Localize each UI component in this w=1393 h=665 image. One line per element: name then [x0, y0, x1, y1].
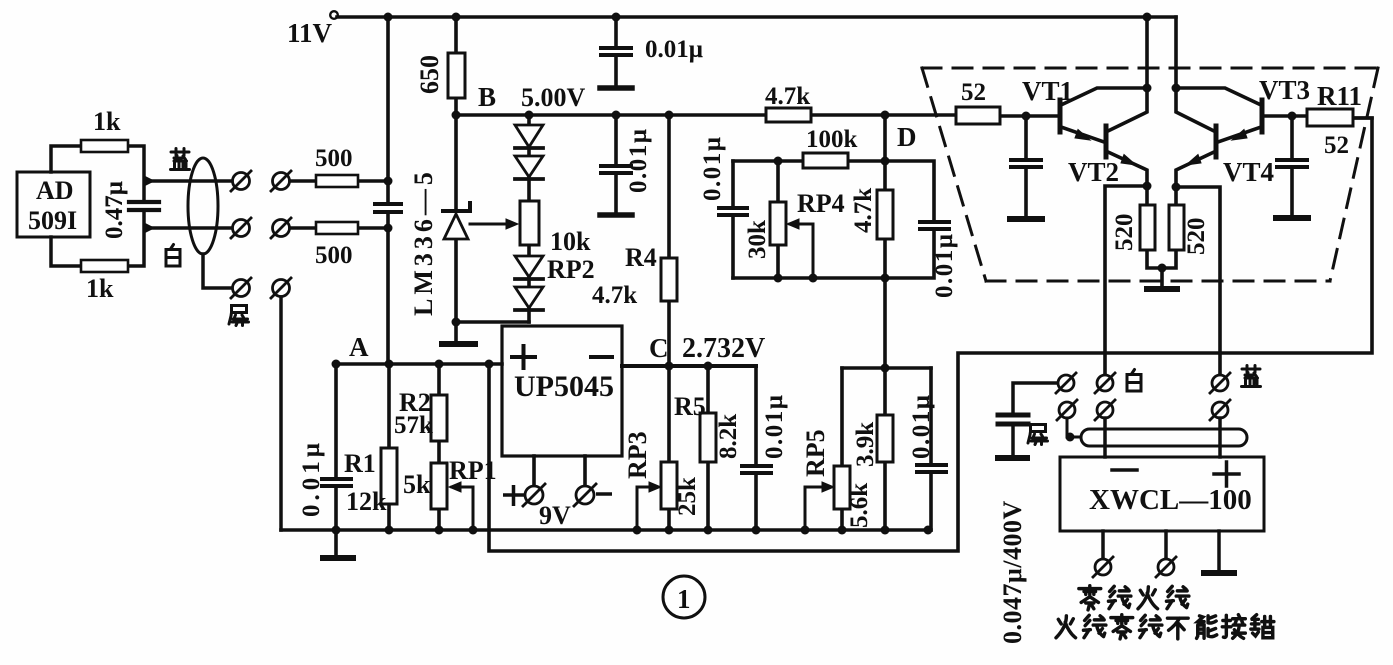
dashed module outline left [922, 68, 986, 281]
node 100k left [774, 157, 783, 166]
node left rail 500 lower [384, 224, 393, 233]
node B at diode chain [525, 111, 534, 120]
resistor R5 8.2k [700, 413, 716, 462]
resistor 52 left [956, 107, 1000, 124]
terminal mains 2 [1156, 557, 1176, 577]
terminal middle right [271, 218, 291, 238]
wire RP3 wiper [637, 487, 657, 530]
wire 0.01u right loop of RP4 [885, 161, 934, 278]
wire left 520 column [1147, 186, 1176, 268]
terminal shield left [231, 278, 251, 298]
node 520 common [1158, 264, 1167, 273]
ground 520 common [1147, 286, 1177, 292]
wire R5 column [706, 366, 710, 530]
resistor R4 4.7k [661, 258, 677, 301]
node B at 0.01u [612, 111, 621, 120]
ground below 0.01u A [323, 555, 353, 561]
terminal upper left [231, 171, 251, 191]
node 100k right [881, 157, 890, 166]
svg-text:VT3: VT3 [1259, 75, 1310, 105]
label minus battery [596, 492, 612, 496]
node rail R5 [704, 526, 713, 535]
wire diode chain bottom to LM336 ground node [456, 320, 529, 324]
svg-text:RP2: RP2 [547, 255, 595, 284]
node rail R1 [385, 526, 394, 535]
ground XWCL [1204, 570, 1234, 576]
wire 3.9k column [883, 368, 887, 530]
svg-text:30k: 30k [744, 220, 771, 259]
wire diode chain column [527, 115, 531, 322]
terminal shield right [271, 278, 291, 298]
potentiometer RP5 body [834, 466, 850, 509]
wire AD509I top feedback loop [51, 146, 144, 202]
diode D1 [515, 125, 543, 148]
resistor 100k [803, 153, 848, 168]
svg-text:10k: 10k [550, 227, 591, 256]
node top rail at 0.01u [612, 13, 621, 22]
svg-text:2.732V: 2.732V [682, 333, 765, 364]
svg-text:R1: R1 [344, 449, 376, 478]
wire R4 column B to C [667, 115, 671, 366]
svg-text:4.7k: 4.7k [592, 282, 637, 309]
svg-text:0.01μ: 0.01μ [931, 233, 958, 298]
svg-text:500: 500 [315, 242, 353, 269]
resistor 1k top [81, 140, 128, 152]
wire RP1 wiper [452, 487, 473, 530]
node rail RP5 wiper [801, 526, 810, 535]
wire R1 column [387, 364, 391, 530]
diode D3 [515, 256, 543, 279]
resistor 520 right [1169, 205, 1184, 250]
heater XWCL-100 box [1060, 457, 1264, 531]
svg-text:RP5: RP5 [801, 429, 830, 477]
node VT1 VT2 collector [1143, 84, 1152, 93]
svg-text:100k: 100k [806, 126, 858, 153]
node B at 650 [452, 111, 461, 120]
svg-text:0.01μ: 0.01μ [908, 394, 935, 459]
node 520 emitter right [1172, 183, 1181, 192]
svg-text:UP5045: UP5045 [514, 370, 614, 403]
svg-text:25k: 25k [674, 477, 701, 516]
resistor R1 12k [381, 448, 397, 504]
wire 520 common ground stub [1160, 268, 1164, 287]
svg-text:0.01μ: 0.01μ [298, 439, 325, 517]
resistor 520 left [1140, 205, 1155, 250]
svg-text:VT4: VT4 [1223, 157, 1274, 187]
wire white lead into XWCL [1103, 418, 1107, 457]
capacitor at VT3 base plates [1277, 160, 1307, 167]
svg-text:0.47μ: 0.47μ [101, 181, 128, 239]
wire AD509I bottom feedback loop [51, 210, 144, 266]
terminal shield top [1056, 373, 1076, 393]
resistor 650 [448, 53, 465, 98]
node D top [881, 111, 890, 120]
svg-text:1k: 1k [86, 274, 114, 303]
annotation circled figure number 1 [663, 576, 705, 618]
label shield chinese left [229, 306, 249, 326]
dashed module outline right [1330, 68, 1378, 281]
capacitor 0.01u at C plates [742, 466, 771, 473]
terminal battery minus [574, 484, 596, 506]
terminal shield bottom [1057, 400, 1077, 420]
ground below VT1 base cap [1010, 216, 1042, 222]
wire XWCL mains lead 2 [1164, 531, 1168, 558]
node VT1 base [1022, 112, 1031, 121]
label plus inside XWCL [1214, 462, 1239, 486]
op-amp U1 AD509I box [17, 172, 90, 237]
terminal battery plus [523, 484, 545, 506]
wire white output drop [1105, 186, 1147, 374]
label blue chinese bottom [1242, 366, 1261, 387]
capacitor 0.01u below B end bar [600, 212, 632, 218]
transistor Q1 VT1 [1060, 88, 1147, 142]
svg-text:509I: 509I [28, 206, 77, 235]
capacitor 0.01u at A plates [322, 479, 351, 486]
IC U2 UP5045 box [502, 326, 622, 456]
wire ground rail bottom [281, 528, 931, 532]
svg-text:VT1: VT1 [1022, 76, 1073, 106]
svg-text:12k: 12k [346, 487, 387, 516]
svg-text:5k: 5k [403, 470, 431, 499]
wire RP4 box left with series cap [731, 161, 735, 278]
wire 30k column [776, 161, 780, 278]
svg-text:RP4: RP4 [797, 189, 845, 218]
svg-text:RP3: RP3 [623, 431, 652, 479]
svg-text:4.7k: 4.7k [765, 83, 810, 110]
dashed module outline top [922, 67, 1378, 70]
terminal mains 1 [1093, 557, 1113, 577]
node C at R5 [704, 362, 713, 371]
wire top 11V rail [337, 15, 1176, 19]
node top rail at 650 [452, 13, 461, 22]
node left rail 500 upper [384, 177, 393, 186]
svg-text:0.047μ/400V: 0.047μ/400V [998, 500, 1027, 644]
terminal blue bottom [1210, 400, 1230, 420]
node B at R4 [665, 111, 674, 120]
label minus inside XWCL [1112, 468, 1137, 472]
label shield chinese bottom [1028, 425, 1048, 445]
resistor 4.7k horizontal on B rail [766, 108, 811, 122]
resistor 1k bottom [81, 260, 128, 272]
node rail 3.9k [881, 526, 890, 535]
svg-text:3.9k: 3.9k [852, 422, 879, 467]
wire D to 52 resistor [885, 115, 1058, 116]
wire RP4 box bottom [733, 276, 885, 280]
capacitor in left rail plates [375, 204, 401, 212]
node top rail at left rail [384, 13, 393, 22]
node rail 0.01u RP5 [924, 526, 933, 535]
node rail 0.01u A [332, 526, 341, 535]
svg-text:0.01μ: 0.01μ [761, 394, 788, 459]
capacitor at VT1 base plates [1011, 160, 1041, 167]
node A left [332, 360, 341, 369]
svg-text:500: 500 [315, 145, 353, 172]
wire 500 lower [290, 226, 388, 230]
svg-text:520: 520 [1183, 218, 1210, 256]
wire 100k row [733, 159, 885, 163]
wire top rail corner drop to VT3 VT4 collectors [1174, 17, 1178, 88]
potentiometer RP2 10k body [520, 201, 539, 245]
svg-text:RP1: RP1 [449, 456, 497, 485]
capacitor 0.01u RP4 left plates [719, 208, 747, 215]
wire feedback from A row down [489, 118, 1372, 551]
terminal white bottom [1095, 400, 1115, 420]
wire shield to heater tube [1067, 418, 1081, 437]
resistor R2 57k [431, 395, 447, 441]
svg-text:1: 1 [677, 584, 691, 614]
svg-text:5.00V: 5.00V [521, 83, 586, 112]
capacitor 0.01u below B rail column [614, 115, 618, 212]
svg-text:A: A [349, 332, 369, 362]
heater tube capsule [1081, 429, 1247, 446]
svg-text:R11: R11 [1317, 81, 1362, 111]
ground below VT3 base cap [1276, 215, 1308, 221]
wire left rail down from 11V [386, 17, 390, 364]
terminal upper right [271, 171, 291, 191]
wire C row 2.732V [622, 364, 756, 368]
svg-text:C: C [649, 333, 669, 363]
transistor Q2 VT2 [1106, 88, 1147, 186]
label mains text row 2 [1056, 615, 1274, 639]
label minus UP5045 [589, 355, 614, 359]
node C at R4 [665, 362, 674, 371]
wire D column [883, 115, 887, 368]
node rail RP3 [665, 526, 674, 535]
terminal middle left [231, 218, 251, 238]
svg-text:4.7k: 4.7k [850, 188, 877, 233]
wire UP5045 battery lead plus [532, 456, 536, 486]
node RP4 bottom 30k [774, 274, 783, 283]
wire 0.01u column at C [754, 366, 758, 530]
wire RP4 wiper [790, 224, 813, 278]
wire shield column down to ground rail [279, 297, 283, 530]
svg-text:XWCL—100: XWCL—100 [1089, 484, 1252, 516]
svg-text:52: 52 [961, 79, 986, 106]
capacitor 0.01u top column [614, 17, 618, 85]
wire RP5 network top [842, 366, 931, 370]
capacitor at VT1 base column [1024, 116, 1028, 216]
capacitor at VT3 base column [1290, 116, 1294, 215]
diode LM336-5 zener symbol [443, 203, 470, 239]
svg-text:B: B [478, 82, 496, 112]
svg-text:R4: R4 [625, 243, 657, 272]
resistor 500 lower [316, 222, 358, 234]
label white chinese left [166, 245, 180, 267]
resistor R11 52 [1307, 109, 1353, 126]
wire blue lead into XWCL [1218, 418, 1222, 457]
wire RP3 column [667, 366, 671, 530]
svg-text:1k: 1k [93, 107, 121, 136]
capacitor 0.01u RP4 right plates [920, 222, 949, 229]
capacitor 0.01u top plates [601, 48, 631, 55]
node 520 emitter left [1143, 182, 1152, 191]
wire top rail drop to VT1 VT2 collectors [1145, 17, 1149, 88]
capacitor 0.01u below B plates [601, 166, 631, 173]
label plus UP5045 [510, 344, 537, 370]
node LM336 ground [452, 318, 461, 327]
svg-text:57k: 57k [394, 412, 433, 439]
potentiometer 30k body [770, 202, 786, 245]
svg-text:11V: 11V [287, 18, 333, 48]
svg-text:0.01μ: 0.01μ [625, 128, 652, 193]
wire A row [336, 362, 502, 366]
cable shield ellipse [188, 158, 218, 254]
svg-text:520: 520 [1111, 214, 1138, 252]
wire blue output drop [1176, 187, 1220, 374]
svg-text:LM336—5: LM336—5 [409, 168, 438, 316]
label blue chinese left [171, 149, 190, 170]
wire UP5045 battery lead minus [583, 456, 587, 486]
wire R2 RP1 column [437, 364, 441, 530]
node top rail at VT collectors [1143, 13, 1152, 22]
terminal blue top [1210, 373, 1230, 393]
svg-text:R5: R5 [674, 392, 706, 421]
wire XWCL mains lead 1 [1101, 531, 1105, 558]
node heater tube tip [1066, 433, 1075, 442]
node RP4 bottom D [881, 274, 890, 283]
capacitor 0.01u top end bar [600, 85, 632, 91]
wire ground stub LM336 [454, 322, 458, 341]
wire LM336 adjust arrow to RP2 wiper [470, 223, 506, 226]
svg-text:9V: 9V [539, 501, 571, 530]
transistor Q3 VT3 [1176, 88, 1262, 142]
resistor 500 upper [316, 175, 358, 187]
diode D2 [515, 156, 543, 179]
wire 650 column [454, 17, 458, 115]
label white chinese bottom [1127, 370, 1141, 392]
node rail RP1 wiper [469, 526, 478, 535]
resistor 3.9k [877, 415, 893, 462]
wire RP5 wiper [805, 487, 830, 530]
svg-text:AD: AD [36, 176, 74, 205]
terminal 11V supply [330, 11, 338, 19]
label mains text row 1 [1079, 586, 1189, 610]
diode D4 [515, 287, 543, 310]
node rail RP3 wiper [633, 526, 642, 535]
capacitor 0.47u plates [129, 202, 159, 210]
node rail RP5 [838, 526, 847, 535]
svg-text:650: 650 [415, 55, 444, 94]
wire VT3 base to R11 [1264, 116, 1372, 118]
svg-text:8.2k: 8.2k [715, 414, 742, 459]
resistor 4.7k on D column [877, 190, 893, 239]
wire A row left drop to 0.01u [334, 364, 338, 556]
svg-text:0.01μ: 0.01μ [699, 136, 726, 201]
potentiometer RP1 5k body [431, 463, 447, 509]
wire shield drain [203, 254, 231, 288]
ground LM336 [442, 341, 475, 347]
wire upper signal to cable [147, 179, 233, 183]
wire LM336 column [454, 115, 458, 322]
svg-text:5.6k: 5.6k [846, 483, 873, 528]
dashed module outline bottom [986, 280, 1330, 283]
svg-text:D: D [897, 122, 917, 152]
capacitor 0.047u plates [998, 415, 1028, 424]
terminal white top [1095, 373, 1115, 393]
node A R2 [435, 360, 444, 369]
potentiometer RP3 25k body [661, 462, 677, 509]
capacitor 0.047u/400V wire [1013, 383, 1058, 455]
svg-text:52: 52 [1324, 132, 1349, 159]
capacitor 0.01u RP5 plates [917, 465, 946, 472]
label plus battery [503, 485, 524, 506]
node junction arrow upper [144, 176, 154, 186]
node RP4 bottom wiper [809, 274, 818, 283]
node A R1 [385, 360, 394, 369]
wire RP5 column [840, 368, 844, 530]
node RP5 top D [881, 364, 890, 373]
svg-text:VT2: VT2 [1068, 157, 1119, 187]
wire XWCL ground lead [1217, 531, 1221, 571]
wire 0.01u column right of 3.9k [929, 368, 933, 530]
svg-text:0.01μ: 0.01μ [645, 36, 703, 63]
wire 500 upper [290, 179, 388, 183]
wire lower signal to cable [147, 226, 233, 230]
node rail R2 [435, 526, 444, 535]
node junction arrow lower [144, 223, 154, 233]
node A feedback [485, 360, 494, 369]
node rail 0.01u C [752, 526, 761, 535]
node VT3 VT4 collector [1172, 84, 1181, 93]
wire B rail 5.00V [456, 113, 885, 117]
ground 0.047u [998, 455, 1027, 461]
transistor Q4 VT4 [1176, 88, 1216, 187]
node VT3 base [1288, 112, 1297, 121]
